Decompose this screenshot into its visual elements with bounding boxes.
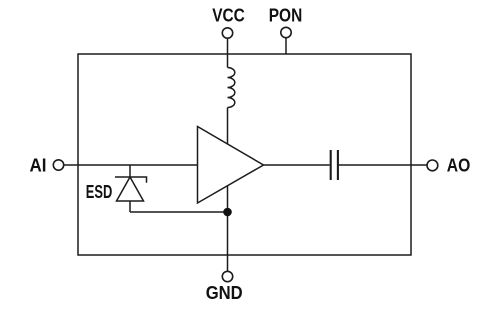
ESD diode triangle bbox=[117, 177, 144, 201]
terminal GND (open circle) bbox=[222, 271, 232, 281]
wire capacitor to AO terminal bbox=[339, 164, 427, 166]
svg-text:PON: PON bbox=[269, 6, 303, 26]
svg-text:AI: AI bbox=[30, 155, 47, 175]
terminal PON (open circle) bbox=[281, 27, 291, 37]
wire inductor to amplifier top bbox=[227, 108, 229, 145]
wire ESD diode anode down bbox=[129, 201, 131, 212]
wire AI terminal to amplifier input bbox=[64, 164, 198, 166]
capacitor (output coupling) left plate bbox=[330, 150, 332, 180]
label AI bbox=[30, 155, 47, 175]
wire AI line to ESD diode cathode bbox=[129, 165, 131, 177]
junction node (amplifier ground / ESD return) bbox=[223, 208, 232, 217]
wire PON terminal to box top bbox=[285, 38, 287, 54]
ESD diode cathode bar with bent tick bbox=[115, 177, 147, 183]
label GND bbox=[206, 283, 243, 303]
label VCC bbox=[212, 6, 245, 26]
label ESD bbox=[86, 182, 113, 202]
wire amplifier output to capacitor bbox=[264, 164, 330, 166]
wire ESD anode to ground node bbox=[130, 211, 228, 213]
inductor (VCC feed coil) bbox=[228, 68, 235, 108]
svg-text:GND: GND bbox=[206, 283, 243, 303]
wire box top to inductor bbox=[227, 54, 229, 68]
svg-text:VCC: VCC bbox=[212, 6, 245, 26]
svg-text:AO: AO bbox=[447, 156, 471, 176]
terminal AO (open circle) bbox=[427, 160, 438, 171]
wire amplifier bottom to GND terminal bbox=[227, 186, 229, 271]
svg-text:ESD: ESD bbox=[86, 182, 113, 202]
capacitor right plate bbox=[337, 150, 339, 180]
device outline box bbox=[78, 54, 411, 255]
label AO bbox=[447, 156, 471, 176]
label PON bbox=[269, 6, 303, 26]
terminal VCC (open circle) bbox=[222, 28, 232, 38]
amplifier U1 (triangle) bbox=[198, 127, 264, 204]
wire VCC terminal to box top bbox=[227, 38, 229, 54]
terminal AI (open circle) bbox=[53, 160, 63, 170]
